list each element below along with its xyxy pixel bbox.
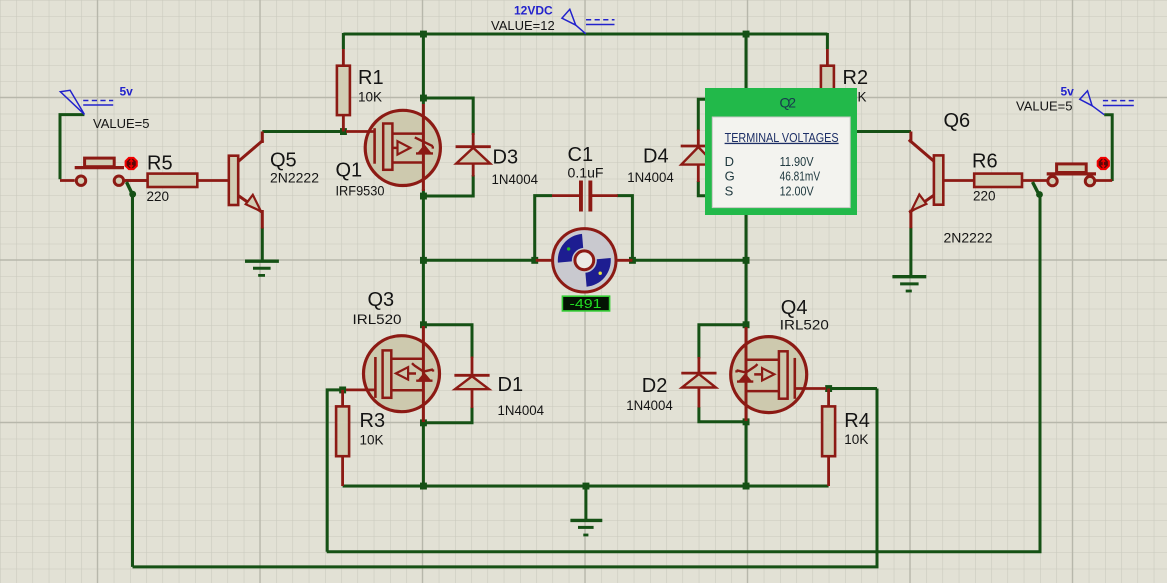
wire: D1 bottom branch (423, 407, 472, 423)
wire: D2 top branch (699, 325, 746, 359)
transistor Q1 IRF9530 P-MOSFET (346, 104, 440, 191)
svg-text:46.81mV: 46.81mV (780, 169, 821, 184)
motor speed display -491 (562, 296, 609, 311)
resistor R3 (336, 390, 349, 486)
power source 5v left (60, 90, 113, 114)
svg-text:Q6: Q6 (944, 110, 971, 132)
svg-text:D4: D4 (643, 145, 669, 167)
wire: C1 left branch (535, 196, 552, 262)
wire: C1 right branch (617, 196, 633, 262)
wire: ground rail y486 (343, 485, 829, 488)
wire: D3 anode branch (423, 175, 473, 196)
svg-text:VALUE=5: VALUE=5 (93, 116, 150, 131)
power source 12VDC (562, 9, 615, 34)
wire: Q3 gate node left (327, 390, 342, 552)
wire: D3 cathode branch (423, 98, 473, 135)
transistor Q5 2N2222 NPN (229, 132, 263, 229)
svg-text:R2: R2 (843, 67, 869, 89)
wire: motor right wire (631, 259, 746, 262)
transistor Q3 IRL520 N-MOSFET (346, 326, 440, 422)
transistor Q4 IRL520 N-MOSFET (mirrored) (731, 327, 826, 421)
button actuator left (red) (126, 158, 137, 169)
svg-text:IRL520: IRL520 (353, 312, 402, 327)
wire: D1 top branch (423, 325, 472, 358)
wire: Q4 gate node to right vertical (829, 387, 877, 390)
svg-text:VALUE=5: VALUE=5 (1016, 99, 1073, 114)
wire: Q4 source to ground rail (745, 420, 748, 486)
resistor R4 (822, 389, 835, 487)
svg-text:TERMINAL VOLTAGES: TERMINAL VOLTAGES (725, 130, 839, 145)
svg-text:1N4004: 1N4004 (626, 398, 673, 413)
resistor R1 (337, 49, 350, 132)
wire: Q3 source to ground rail (422, 421, 425, 486)
svg-text:R4: R4 (844, 410, 870, 432)
svg-text:10K: 10K (358, 90, 382, 105)
svg-text:Q3: Q3 (368, 289, 395, 311)
svg-text:S: S (725, 183, 734, 198)
popup window Q2 terminal voltages (705, 88, 857, 215)
wire: D4 anode branch (698, 181, 746, 196)
wire: right MOSFET column (12V via Q2 to Q4 drain) (745, 34, 748, 327)
svg-text:12VDC: 12VDC (514, 4, 553, 18)
svg-text:D: D (725, 154, 734, 169)
diode D3 (456, 133, 491, 177)
capacitor C1 (552, 181, 618, 212)
wire: left button node down (131, 193, 134, 567)
svg-text:R1: R1 (358, 67, 384, 89)
diode D2 (681, 357, 716, 408)
wire: Q5 emitter to ground (261, 228, 264, 260)
push button right (1033, 164, 1113, 198)
svg-text:VALUE=12: VALUE=12 (491, 18, 555, 33)
wire: R2 bottom to Q2 gate and Q6 collector (790, 130, 911, 133)
svg-text:Q2: Q2 (780, 95, 797, 111)
wire: bottom rail to Q4 gate side (133, 389, 878, 567)
ground (Q5 emitter) (245, 261, 279, 275)
transistor Q6 2N2222 NPN (mirrored) (909, 132, 944, 229)
svg-text:IRF9530: IRF9530 (336, 184, 385, 199)
wire: D2 bottom branch (699, 407, 746, 422)
svg-text:D3: D3 (493, 147, 519, 169)
wire: D4 cathode branch (698, 99, 746, 131)
svg-text:-491: -491 (570, 296, 602, 311)
ground (Q6 emitter) (892, 277, 926, 291)
wire: Q1 drain to motor node (422, 189, 425, 327)
power source 5v right (1080, 91, 1134, 115)
wire: lower rail to right button column (327, 196, 1040, 552)
svg-text:220: 220 (973, 189, 996, 204)
svg-text:5v: 5v (1061, 84, 1075, 98)
svg-text:10K: 10K (360, 432, 384, 447)
motor (DC motor) (536, 229, 633, 292)
push button left (60, 158, 148, 198)
svg-text:220: 220 (147, 189, 170, 204)
svg-text:2N2222: 2N2222 (944, 230, 993, 245)
svg-text:G: G (725, 169, 735, 184)
svg-text:D2: D2 (642, 375, 668, 397)
svg-text:D1: D1 (498, 374, 524, 396)
svg-text:IRL520: IRL520 (780, 317, 829, 332)
svg-text:1N4004: 1N4004 (498, 403, 545, 418)
svg-text:Q5: Q5 (270, 150, 297, 172)
svg-text:1N4004: 1N4004 (627, 170, 674, 185)
button actuator right (red) (1098, 158, 1109, 169)
svg-text:Q4: Q4 (781, 297, 808, 319)
wire: Q5 collector to Q1 gate node (262, 130, 346, 133)
svg-text:R3: R3 (360, 410, 386, 432)
svg-text:R5: R5 (147, 153, 173, 175)
svg-text:R6: R6 (972, 151, 998, 173)
resistor R6 (942, 174, 1047, 187)
ground (center bottom) (570, 520, 602, 535)
diode D4 (681, 130, 716, 183)
wire: Q6 emitter to ground (909, 228, 912, 276)
svg-text:1N4004: 1N4004 (492, 172, 539, 187)
wire: right 5v source to button (1104, 115, 1112, 181)
svg-text:12.00V: 12.00V (780, 183, 814, 198)
wire: left MOSFET column (12V to Q1 source) (422, 34, 425, 104)
svg-text:5v: 5v (120, 85, 134, 99)
resistor R2 (821, 49, 834, 132)
wire: left 5v source to button (60, 115, 84, 180)
svg-text:2N2222: 2N2222 (270, 171, 319, 186)
wire: R2 top stub (826, 33, 829, 49)
svg-text:Q1: Q1 (336, 159, 363, 181)
svg-text:C1: C1 (568, 144, 594, 166)
wire: center ground stub (584, 486, 587, 519)
svg-text:11.90V: 11.90V (780, 154, 814, 169)
wire: R1 top stub (342, 33, 345, 49)
svg-text:0.1uF: 0.1uF (568, 165, 604, 180)
diode D1 (454, 357, 489, 409)
resistor R5 (125, 174, 228, 187)
wire: motor left wire (423, 259, 535, 262)
svg-text:10K: 10K (844, 432, 868, 447)
